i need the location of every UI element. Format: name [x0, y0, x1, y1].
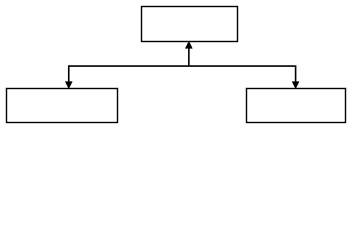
bottom-right box — [247, 89, 346, 123]
wire: center vertical from horizontal run up to top box — [188, 44, 190, 66]
bottom-left box — [7, 89, 118, 123]
top box — [142, 7, 238, 42]
arrowhead: down into bottom-right box — [292, 82, 299, 89]
arrowhead: down into bottom-left box — [65, 82, 72, 89]
wire: connector with elbows (left drop, horizontal run, right drop) — [69, 66, 296, 87]
arrowhead: up into top box — [185, 41, 192, 48]
